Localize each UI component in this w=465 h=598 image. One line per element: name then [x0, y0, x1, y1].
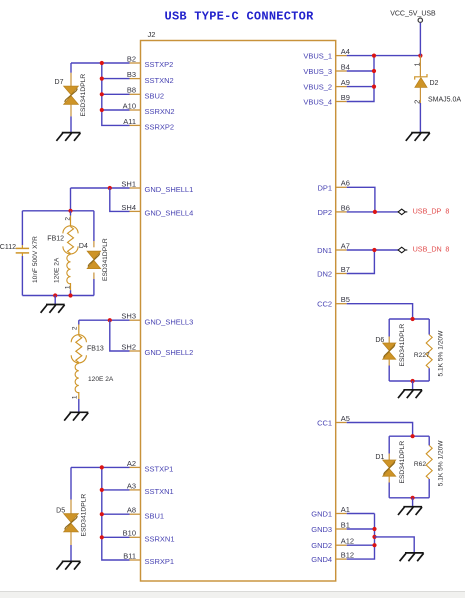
wire SH1 to SH4 [110, 188, 130, 211]
wire B1 stub [347, 528, 375, 530]
capacitor C112 pin 1 [21, 245, 23, 248]
svg-text:ESD341DPLR: ESD341DPLR [399, 324, 406, 367]
wire CC1 ground stem [412, 498, 414, 507]
pin A1 GND1 [336, 513, 347, 515]
junction D2 tap [418, 54, 422, 58]
junction DN [372, 248, 376, 252]
wire R62 bottom [428, 479, 430, 498]
wire D6 bottom [388, 366, 390, 382]
wire SH1 feed to loop [70, 188, 72, 211]
wire FB12 top [70, 211, 72, 216]
diode D1 pin 2 [388, 476, 390, 482]
pin A3 SSTXN1 [130, 489, 141, 491]
junction B2 [100, 61, 104, 65]
svg-text:5.1K 5% 1/20W: 5.1K 5% 1/20W [438, 440, 445, 487]
svg-text:SH4: SH4 [121, 203, 136, 212]
junction FB12 top [68, 209, 72, 213]
pin B4 VBUS_3 [336, 70, 347, 72]
diode D5 pin 2 [70, 532, 72, 545]
svg-text:A8: A8 [127, 506, 136, 515]
wire CC1 bottom rail [389, 497, 429, 499]
svg-text:D7: D7 [55, 79, 64, 86]
svg-text:SH3: SH3 [121, 312, 136, 321]
svg-text:DN2: DN2 [317, 270, 332, 279]
svg-text:SH1: SH1 [121, 179, 136, 188]
pin A12 GND2 [336, 544, 347, 546]
wire R62 top [428, 436, 430, 445]
wire bus GND group [347, 514, 375, 560]
pin A4 VBUS_1 [336, 55, 347, 57]
svg-text:D6: D6 [375, 337, 384, 344]
pin B11 SSRXP1 [130, 559, 141, 561]
junction CC2 gnd [411, 379, 415, 383]
wire FB13 to ground [78, 399, 80, 412]
wire loop left (C112 branch) [21, 211, 23, 245]
svg-text:VBUS_3: VBUS_3 [303, 67, 332, 76]
diode D2 pin 1 [419, 56, 421, 77]
diode D7 ESD341DPLR [64, 86, 79, 104]
power VCC_5V_USB [418, 18, 422, 22]
svg-text:A9: A9 [341, 78, 350, 87]
resistor R62 [426, 445, 432, 479]
wire CC1 top rail [389, 435, 429, 437]
offpage connector USB_DN [398, 247, 407, 253]
svg-text:VBUS_1: VBUS_1 [303, 52, 332, 61]
wire A12 stub [347, 544, 375, 546]
junction VBUS A4 [372, 54, 376, 58]
svg-text:SSTXP1: SSTXP1 [145, 465, 174, 474]
pin B7 DN2 [336, 273, 347, 275]
junction GND B1 [372, 527, 376, 531]
junction DP [373, 210, 377, 214]
ground GND pins [400, 553, 424, 561]
connector J2 body [141, 41, 336, 582]
svg-text:A2: A2 [127, 459, 136, 468]
svg-text:SSTXP2: SSTXP2 [145, 60, 174, 69]
wire loop bottom rail [22, 295, 94, 297]
offpage connector USB_DP [398, 209, 407, 215]
svg-text:A7: A7 [341, 241, 350, 250]
wire FB13 top [78, 320, 80, 324]
pin B5 CC2 [336, 303, 347, 305]
pin A5 CC1 [336, 422, 347, 424]
diode D7 pin 1 [70, 73, 72, 86]
pin A9 VBUS_2 [336, 86, 347, 88]
svg-text:SBU2: SBU2 [145, 92, 165, 101]
pin A10 SSRXN2 [130, 109, 141, 111]
svg-text:D1: D1 [375, 454, 384, 461]
svg-text:GND_SHELL3: GND_SHELL3 [145, 317, 194, 326]
svg-text:120E 2A: 120E 2A [54, 257, 61, 283]
svg-text:B11: B11 [123, 551, 136, 560]
pin A7 DN1 [336, 249, 347, 251]
wire B6 to offpage [347, 211, 399, 213]
diode D6 pin 2 [388, 359, 390, 365]
junction A10 [100, 108, 104, 112]
wire CC2 top rail [389, 318, 429, 320]
wire D4 bottom [93, 279, 95, 296]
pin SH2 GND_SHELL2 [130, 350, 141, 352]
svg-text:SSRXP1: SSRXP1 [145, 557, 175, 566]
diode D4 pin 2 [93, 273, 95, 280]
svg-text:B9: B9 [341, 93, 350, 102]
junction A2 [100, 465, 104, 469]
svg-text:FB13: FB13 [87, 345, 104, 352]
wire SH3 to SH2 [110, 320, 130, 351]
svg-text:FB12: FB12 [47, 235, 64, 242]
junction loop ground [53, 293, 57, 297]
svg-text:ESD341DPLR: ESD341DPLR [102, 238, 109, 281]
pin A2 SSTXP1 [130, 466, 141, 468]
wire bus VBUS group [347, 56, 374, 102]
svg-text:120E 2A: 120E 2A [88, 376, 114, 383]
pin B1 GND3 [336, 528, 347, 530]
pin B12 GND4 [336, 558, 347, 560]
pin B3 SSTXN2 [130, 78, 141, 80]
svg-text:GND_SHELL4: GND_SHELL4 [145, 209, 194, 218]
svg-text:B10: B10 [123, 529, 136, 538]
svg-text:SSTXN1: SSTXN1 [145, 487, 174, 496]
ferrite bead FB13 [76, 336, 82, 363]
svg-text:SH2: SH2 [121, 342, 136, 351]
capacitor C112 [16, 248, 29, 253]
svg-text:GND_SHELL1: GND_SHELL1 [145, 185, 194, 194]
svg-text:B12: B12 [341, 551, 354, 560]
pin B8 SBU2 [130, 93, 141, 95]
svg-text:GND4: GND4 [311, 555, 332, 564]
svg-text:CC1: CC1 [317, 419, 332, 428]
svg-text:B7: B7 [341, 265, 350, 274]
svg-text:USB TYPE-C CONNECTOR: USB TYPE-C CONNECTOR [165, 10, 315, 24]
svg-text:R227: R227 [414, 352, 430, 359]
svg-text:A5: A5 [341, 414, 350, 423]
svg-text:D4: D4 [79, 243, 88, 250]
junction GND A12 [372, 543, 376, 547]
diode D2 pin 2 [419, 87, 421, 103]
svg-text:GND2: GND2 [311, 541, 332, 550]
pin B10 SSRXN1 [130, 536, 141, 538]
svg-text:GND1: GND1 [311, 510, 332, 519]
junction B8 [100, 92, 104, 96]
wire D4 top [93, 211, 95, 241]
wire A3 stub [102, 489, 130, 491]
svg-text:ESD341DPLR: ESD341DPLR [399, 441, 406, 484]
svg-text:8: 8 [445, 245, 449, 254]
svg-text:B2: B2 [127, 54, 136, 63]
wire VBUS_1 to D2 [347, 55, 421, 57]
svg-text:SSRXN2: SSRXN2 [145, 107, 175, 116]
resistor R227 [426, 335, 432, 369]
wire C112 to bottom rail [21, 256, 23, 296]
svg-text:VBUS_2: VBUS_2 [303, 83, 332, 92]
wire loop ground stem [54, 296, 56, 305]
ferrite bead FB12 pin 2 [70, 216, 72, 227]
diode D7 pin 2 [70, 104, 72, 116]
svg-text:B6: B6 [341, 203, 350, 212]
wire B4 stub [347, 70, 374, 72]
svg-text:GND3: GND3 [311, 525, 332, 534]
svg-text:5.1K 5% 1/20W: 5.1K 5% 1/20W [438, 330, 445, 377]
junction VBUS A9 [372, 85, 376, 89]
junction CC2 top [411, 317, 415, 321]
wire D5 to ground [70, 545, 72, 561]
svg-text:VBUS_4: VBUS_4 [303, 98, 332, 107]
svg-text:SSRXN1: SSRXN1 [145, 535, 175, 544]
junction GND branch [372, 535, 376, 539]
ground under FB13 [64, 412, 88, 420]
ground under CC1 net [398, 507, 422, 515]
svg-text:8: 8 [445, 206, 449, 215]
svg-text:SSTXN2: SSTXN2 [145, 76, 174, 85]
capacitor C112 pin 2 [21, 253, 23, 256]
pin SH3 GND_SHELL3 [130, 319, 141, 321]
wire B10 stub [102, 536, 130, 538]
svg-text:1: 1 [72, 395, 79, 399]
svg-text:D2: D2 [430, 80, 439, 87]
diode D6 pin 1 [388, 337, 390, 344]
svg-text:DN1: DN1 [317, 246, 332, 255]
svg-text:SBU1: SBU1 [145, 511, 165, 520]
ground under D5 [56, 561, 80, 569]
svg-text:A11: A11 [123, 117, 136, 126]
wire D5 drop [70, 467, 72, 499]
wire R227 bottom [428, 368, 430, 381]
pin A6 DP1 [336, 186, 347, 188]
wire bus SSTX2 group [102, 63, 130, 125]
junction FB12 bottom [68, 293, 72, 297]
wire B7 to A7 [347, 250, 375, 274]
wire VCC to VBUS [419, 23, 421, 56]
wire FB12 bottom [70, 290, 72, 295]
diode D5 ESD341DPLR [64, 514, 79, 532]
junction A3 [100, 488, 104, 492]
svg-text:10nF 500V X7R: 10nF 500V X7R [32, 236, 39, 283]
ferrite bead FB13 pin 1 [78, 392, 80, 399]
ferrite bead FB12 [68, 227, 74, 254]
wire CC2 ground stem [412, 381, 414, 390]
pin B6 DP2 [336, 211, 347, 213]
svg-text:DP2: DP2 [318, 208, 333, 217]
diode D1 pin 1 [388, 454, 390, 461]
svg-text:R62: R62 [414, 461, 426, 468]
svg-text:B5: B5 [341, 295, 350, 304]
svg-text:VCC_5V_USB: VCC_5V_USB [390, 10, 436, 17]
wire CC1 feed [347, 423, 413, 437]
wire A7 to offpage [347, 249, 399, 251]
svg-text:GND_SHELL2: GND_SHELL2 [145, 348, 194, 357]
wire A6 to B6 [347, 187, 375, 212]
svg-text:SSRXP2: SSRXP2 [145, 123, 175, 132]
pin A8 SBU1 [130, 513, 141, 515]
wire D1 top [388, 436, 390, 453]
svg-text:B3: B3 [127, 70, 136, 79]
wire D6 top [388, 319, 390, 337]
wire A10 stub [102, 109, 130, 111]
bottom strip [0, 592, 465, 598]
svg-text:DP1: DP1 [318, 183, 333, 192]
diode D1 ESD341DPLR [383, 460, 396, 476]
svg-text:A3: A3 [127, 481, 136, 490]
wire B3 stub [102, 78, 130, 80]
svg-text:A10: A10 [123, 101, 136, 110]
junction SH1 [108, 186, 112, 190]
ferrite bead FB12 pin 1 [70, 283, 72, 290]
svg-text:B1: B1 [341, 520, 350, 529]
junction CC1 top [411, 434, 415, 438]
wire D1 bottom [388, 483, 390, 498]
svg-text:USB_DN: USB_DN [413, 245, 442, 254]
junction CC1 gnd [411, 496, 415, 500]
pin SH4 GND_SHELL4 [130, 210, 141, 212]
svg-text:ESD341DPLR: ESD341DPLR [81, 494, 88, 537]
svg-text:USB_DP: USB_DP [413, 206, 442, 215]
svg-text:A1: A1 [341, 505, 350, 514]
diode D2 SMAJ5.0A [415, 74, 427, 80]
wire D7 net top [71, 62, 130, 64]
svg-text:J2: J2 [148, 30, 156, 39]
svg-text:A12: A12 [341, 537, 354, 546]
svg-text:1: 1 [65, 285, 72, 289]
wire CC2 feed [347, 304, 413, 319]
svg-text:A4: A4 [341, 47, 350, 56]
pin SH1 GND_SHELL1 [130, 187, 141, 189]
ferrite bead FB13 pin 2 [78, 325, 80, 336]
wire D7 drop [70, 63, 72, 73]
svg-text:B8: B8 [127, 86, 136, 95]
wire CC2 bottom rail [389, 380, 429, 382]
ground under CC2 net [398, 390, 422, 398]
svg-text:B4: B4 [341, 62, 350, 71]
wire A8 stub [102, 513, 130, 515]
wire bus SSTX1 group [102, 467, 130, 560]
ground under D2 [406, 133, 430, 141]
pin A11 SSRXP2 [130, 124, 141, 126]
wire A1 stub [347, 513, 375, 515]
svg-text:C112: C112 [0, 244, 16, 251]
wire D2 to ground [419, 103, 421, 132]
junction B3 [100, 77, 104, 81]
svg-text:A6: A6 [341, 179, 350, 188]
wire D7 to ground [70, 116, 72, 132]
wire R227 top [428, 319, 430, 335]
junction A8 [100, 512, 104, 516]
wire D5 net top [71, 466, 130, 468]
pin B9 VBUS_4 [336, 101, 347, 103]
diode D6 ESD341DPLR [383, 343, 396, 359]
junction B10 [100, 535, 104, 539]
junction SH3 [108, 318, 112, 322]
svg-text:CC2: CC2 [317, 300, 332, 309]
ground under shell loop [41, 305, 65, 313]
wire B8 stub [102, 93, 130, 95]
svg-text:ESD341DPLR: ESD341DPLR [80, 74, 87, 117]
ground under D7 [56, 133, 80, 141]
junction VBUS B4 [372, 69, 376, 73]
diode D4 ESD341DPLR [87, 251, 100, 268]
wire GND branch [375, 537, 415, 553]
svg-text:2: 2 [72, 326, 79, 330]
wire A9 stub [347, 86, 374, 88]
wire loop top rail [22, 210, 94, 212]
wire SH3 [79, 319, 130, 321]
svg-text:D5: D5 [56, 507, 65, 514]
svg-text:SMAJ5.0A: SMAJ5.0A [428, 97, 461, 104]
pin B2 SSTXP2 [130, 62, 141, 64]
wire SH1 [71, 187, 130, 189]
diode D4 pin [93, 241, 95, 247]
diode D5 pin 1 [70, 500, 72, 514]
